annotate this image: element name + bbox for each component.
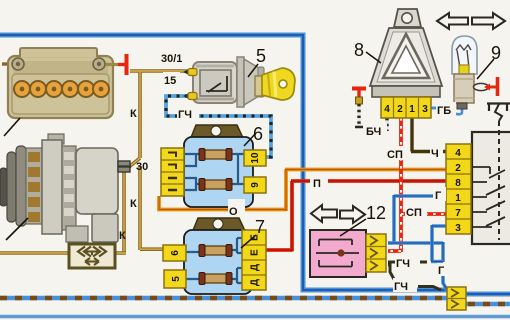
svg-text:6: 6 <box>253 124 263 144</box>
fuse box 6 <box>161 124 266 207</box>
wire: red P wire fuse box 7 terminal E to connector block terminal 8 <box>264 181 446 252</box>
svg-text:4: 4 <box>384 104 390 115</box>
hazard switch 8 <box>354 9 442 118</box>
wire: Ch black wire switch 8 terminal 1 to block terminal 4 <box>411 118 446 152</box>
connector X1 (plug pair) on ground wire <box>69 244 115 268</box>
svg-text:Е: Е <box>250 249 261 256</box>
turn arrows symbol near relay 12 <box>311 205 365 223</box>
svg-text:6: 6 <box>170 250 181 256</box>
label 5 with pointer <box>248 64 258 77</box>
wire: brown K wire generator 30 terminal down to ground bus <box>122 170 126 253</box>
svg-text:9: 9 <box>250 182 261 188</box>
terminal column of relay 12 <box>366 234 386 272</box>
svg-text:9: 9 <box>491 43 501 63</box>
svg-text:7: 7 <box>255 217 265 237</box>
wire: BCh white/black striped stub below switch 8 terminal 4 <box>385 118 388 131</box>
wire: GB blue stub from switch 8 terminal 3 <box>431 107 437 110</box>
key of ignition switch <box>255 68 295 100</box>
wire: bottom blue frame line <box>0 315 510 318</box>
internal links of fuse box 7 <box>184 238 243 283</box>
power symbol: red T at lamp 9 <box>484 84 490 91</box>
label P on red wire <box>310 172 328 190</box>
label 8 with pointer <box>366 52 381 63</box>
label GCh on wire from terminal 15 <box>177 106 199 121</box>
right terminal column of fuse box 7 (E E D D) <box>242 230 266 290</box>
internal links of fuse box 6 <box>184 154 245 190</box>
terminal 9 of fuse box 6 <box>244 177 266 193</box>
svg-text:П: П <box>313 178 321 190</box>
label O on orange wire <box>228 199 245 218</box>
svg-text:Г: Г <box>438 265 445 277</box>
label GB near switch 8 terminal 3 <box>436 102 456 117</box>
svg-text:Д: Д <box>250 264 261 271</box>
turn signal switch block (steering column switch) <box>446 103 510 244</box>
power symbol: red T on battery positive terminal <box>106 54 127 75</box>
svg-text:30: 30 <box>136 161 148 173</box>
svg-text:Ч: Ч <box>431 148 439 160</box>
terminal 10 of fuse box 6 <box>244 150 266 166</box>
label SP lower on branch to block terminal 7 <box>405 204 427 219</box>
svg-text:8: 8 <box>455 178 461 189</box>
svg-text:К: К <box>130 198 137 210</box>
left terminal column of fuse box 6 <box>161 148 184 196</box>
label GCh near relay upper <box>395 255 419 270</box>
wire: GB blue hook from lamp 9 bottom <box>453 106 462 114</box>
label 30/1 at ignition <box>159 50 189 65</box>
svg-text:7: 7 <box>455 208 461 219</box>
svg-text:ГЧ: ГЧ <box>178 109 192 121</box>
svg-text:К: К <box>119 230 126 242</box>
svg-text:ГЧ: ГЧ <box>396 258 410 270</box>
wire: striped blue-brown bus along bottom into connector X2 <box>0 296 447 300</box>
label 12 with pointer <box>340 219 366 236</box>
wire: SP red/white striped wire switch 8 terminal 2 down, branch to block terminal 7, down to relay 12 <box>388 118 446 252</box>
fuse F9 in box 7 <box>199 245 232 257</box>
svg-text:3: 3 <box>422 104 428 115</box>
terminal row 4 2 1 3 of switch 8 <box>381 97 431 118</box>
svg-text:Д: Д <box>250 279 261 286</box>
svg-text:8: 8 <box>354 40 364 60</box>
svg-text:4: 4 <box>455 148 461 159</box>
battery GB (accumulator) <box>2 48 113 136</box>
wire: GCh blue wire relay 12 top terminal right and down to g label and connector X2 <box>388 242 447 290</box>
svg-text:1: 1 <box>409 104 415 115</box>
wire: brown K wire battery+ to ignition 30/1 and down to generator and fuse box 7 <box>129 71 188 250</box>
fuse F2 in box 6 <box>199 179 232 191</box>
pin 15 of ignition switch <box>183 93 189 99</box>
label K upper (brown wire) <box>130 108 137 120</box>
wire: main blue body wire from left edge along top, down right of ignition switch, along bottom to connector X2 <box>0 35 447 290</box>
svg-text:30/1: 30/1 <box>161 53 182 65</box>
pin 30/1 of ignition switch <box>183 69 189 75</box>
svg-text:БЧ: БЧ <box>366 126 381 138</box>
relay 12 (turn signal flasher) <box>310 203 386 277</box>
terminal 5 of fuse box 7 <box>164 270 186 288</box>
wire: GCh dark wire relay 12 bottom terminal down-right to connector X2 <box>388 265 441 290</box>
svg-text:СП: СП <box>387 149 403 161</box>
wire: GCh dark stubs beside GCh label near relay <box>388 261 427 264</box>
label G on blue wire to block terminal 1 <box>433 187 446 202</box>
control lamp 9 <box>452 36 501 109</box>
label GCh near relay lower <box>393 278 417 293</box>
label Ch on black wire <box>430 145 443 160</box>
wire: G blue wire block terminal 1 down-left to relay 12 top terminal <box>388 195 446 243</box>
svg-text:Г: Г <box>435 190 442 202</box>
warning triangle symbol on switch 8 <box>383 34 429 78</box>
label 9 with pointer <box>477 59 494 79</box>
terminal 30 bolt of generator <box>118 161 130 172</box>
wire: orange O wire fuse box 6 to connector block terminal 2 <box>159 170 446 212</box>
svg-text:3: 3 <box>455 223 461 234</box>
label 15 at ignition <box>163 72 180 87</box>
side contact pin of lamp 9 <box>474 83 489 90</box>
terminal 6 of fuse box 7 <box>163 245 186 261</box>
svg-text:5: 5 <box>171 276 182 282</box>
wire: brown ground bus through connector X1 to left edge <box>0 251 126 255</box>
label K middle (brown wire) <box>130 198 137 210</box>
generator G (alternator) <box>0 134 131 242</box>
svg-text:15: 15 <box>164 75 176 87</box>
fuse F1 in box 6 <box>199 149 232 161</box>
dashed mechanical link in switch block <box>498 121 500 240</box>
label 7 with pointer <box>241 235 256 248</box>
svg-text:2: 2 <box>455 163 461 174</box>
label 30 at generator terminal <box>136 161 148 173</box>
label g small near junction <box>437 263 448 277</box>
label 6 with pointer <box>244 133 256 146</box>
svg-text:5: 5 <box>256 46 266 66</box>
svg-text:О: О <box>229 206 238 218</box>
fuse box 7 <box>163 217 266 294</box>
switch contacts in block <box>472 167 505 178</box>
connector X2 bottom right (plug pair) <box>447 287 466 310</box>
terminal column 4 2 8 1 7 3 of switch block <box>446 144 471 234</box>
wire: GCh blue/black striped wire ignition terminal 15 to fuse box 6 terminal 10 <box>166 96 271 157</box>
svg-text:ГБ: ГБ <box>437 105 451 117</box>
power symbol: red T (+12V tap) with BCh striped wire near switch 8 <box>352 87 366 91</box>
svg-text:К: К <box>130 108 137 120</box>
svg-text:12: 12 <box>366 203 386 223</box>
svg-text:ГЧ: ГЧ <box>394 281 408 293</box>
wire: blue wire block terminal 3 down to junction with g wire <box>431 225 446 262</box>
wire: blue wire exiting connector X2 to right edge <box>466 292 510 297</box>
label K lower (brown wire) <box>119 230 126 242</box>
svg-text:10: 10 <box>250 152 261 164</box>
ignition switch 5 <box>183 46 295 107</box>
svg-text:СП: СП <box>406 207 422 219</box>
turn arrows symbol top right <box>437 13 505 29</box>
svg-text:2: 2 <box>397 104 403 115</box>
label SP upper on striped wire <box>386 146 408 161</box>
label BCh near power tap <box>365 123 387 138</box>
svg-text:1: 1 <box>455 193 461 204</box>
fuse F10 in box 7 <box>199 273 232 285</box>
lever bar of switch block <box>487 103 510 111</box>
wire: striped bus continuing right of connector X2 to edge <box>466 302 510 306</box>
